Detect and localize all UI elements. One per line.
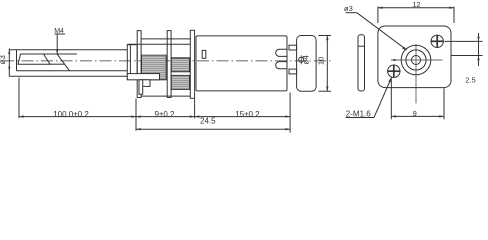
- gear G3: [141, 80, 150, 87]
- dim row1: [19, 116, 290, 118]
- shaft left tip edge: [16, 50, 18, 71]
- gearbox output bushing: [127, 45, 137, 80]
- square end view: [378, 26, 451, 88]
- svg-text:9: 9: [413, 109, 417, 118]
- svg-text:15±0.2: 15±0.2: [235, 110, 260, 119]
- dim row2 24.5: [136, 128, 290, 130]
- shaft outer top line: [9, 49, 128, 51]
- rear gap tab upper: [289, 45, 297, 50]
- 9 dim: [390, 79, 392, 120]
- motor body: [196, 36, 287, 91]
- shaft lower extra line: [9, 75, 127, 77]
- flat trapezoid: [18, 54, 50, 64]
- terminal tab lower: [276, 62, 287, 69]
- gear bar G2: [127, 74, 159, 80]
- svg-text:12: 12: [412, 0, 420, 9]
- gearbox mid plate P2: [167, 31, 171, 98]
- thread runout slant: [57, 54, 69, 71]
- gear G1: [142, 55, 167, 80]
- rear gap tab lower: [289, 69, 297, 74]
- gearbox case top/bottom: [141, 38, 190, 40]
- svg-text:ø4: ø4: [301, 55, 310, 65]
- centerline: [2, 60, 332, 62]
- svg-text:100.0±0.2: 100.0±0.2: [53, 110, 89, 119]
- 10 dim line: [326, 36, 328, 92]
- screw hole 2 (top right): [431, 35, 443, 47]
- svg-text:9±0.2: 9±0.2: [155, 110, 176, 119]
- svg-text:10: 10: [316, 57, 325, 65]
- plate edge view: [358, 35, 365, 91]
- terminal tab upper: [276, 49, 287, 56]
- shaft thread root line: [21, 53, 78, 55]
- rear end view rect: [297, 36, 317, 92]
- gearbox front plate P1: [137, 31, 141, 98]
- svg-text:2.5: 2.5: [465, 76, 475, 85]
- svg-text:24.5: 24.5: [200, 117, 216, 126]
- M4 leader: [55, 33, 66, 35]
- motor front plate P3: [190, 30, 194, 98]
- rear bearing circle: [299, 57, 304, 62]
- 2-M1.6 leader: [346, 117, 375, 119]
- svg-text:M4: M4: [54, 28, 64, 35]
- svg-text:ø3: ø3: [0, 55, 7, 65]
- dia3 dimension line (left): [8, 49, 10, 77]
- svg-text:2-M1.6: 2-M1.6: [346, 110, 371, 119]
- shaft bottom line: [17, 70, 128, 72]
- gear axle post: [139, 80, 143, 94]
- 10 dim extension lines: [319, 35, 332, 37]
- screw hole 1 (bottom left): [388, 65, 400, 77]
- svg-text:ø3: ø3: [344, 4, 353, 13]
- 2.5 dim: [445, 40, 483, 42]
- gear stack right G4: [171, 58, 189, 72]
- dia3 leader (top): [346, 12, 357, 14]
- 12 dim: [377, 7, 379, 24]
- boss circles: [401, 45, 431, 75]
- boss cross: [391, 59, 443, 61]
- bottom dims extension lines: [18, 78, 20, 119]
- motor front small rect: [202, 50, 206, 58]
